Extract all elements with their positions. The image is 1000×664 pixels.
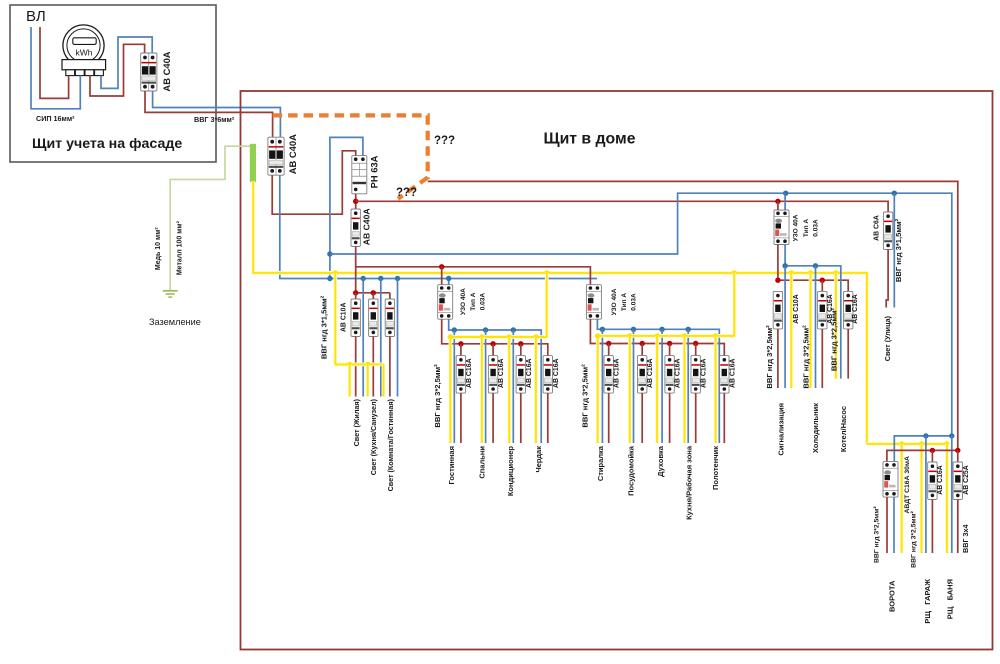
wire yellow circuit group1 509.2 bbox=[507, 337, 511, 443]
label ВВГ нгд 3*2,5мм² (2) bbox=[581, 364, 590, 428]
wire red output garage bbox=[931, 500, 933, 554]
label АВ С40А (facade) bbox=[161, 51, 172, 91]
label АВ С16А (fridge) bbox=[827, 294, 834, 324]
label Тип А (1) bbox=[470, 292, 477, 310]
node PE junction group2 first bbox=[595, 333, 600, 338]
label Гостинная bbox=[447, 446, 456, 484]
wire red meter to breaker QF0 bbox=[90, 44, 145, 96]
node PE junction group1 481.9 bbox=[479, 334, 484, 339]
node neutral tap light 3 bbox=[395, 276, 400, 281]
wire red feed breaker group1 493.1 bbox=[492, 344, 494, 356]
label Стиралка bbox=[596, 445, 605, 481]
wire red feed breaker group2 642.2 bbox=[641, 344, 643, 356]
svg-text:АВ С16А: АВ С16А bbox=[498, 358, 505, 388]
label РН 63А bbox=[369, 155, 380, 188]
wire red house breaker to РН relay bbox=[272, 151, 356, 214]
node neutral junction at riser (upper) bbox=[327, 251, 332, 256]
label Металл 100 мм² bbox=[177, 220, 184, 275]
wire red output group2 669.6 bbox=[669, 393, 671, 443]
wire blue output gates bbox=[893, 497, 895, 553]
wire yellow lights PE distribution bbox=[335, 273, 383, 365]
label АВ С25А bbox=[963, 465, 970, 495]
wire red output group2 608.7 bbox=[608, 393, 610, 443]
breaker АВ С25А banya bbox=[953, 462, 962, 500]
УЗО 40А group3 bbox=[774, 210, 789, 245]
svg-text:Кухня/Рабочая зона: Кухня/Рабочая зона bbox=[685, 445, 694, 520]
svg-text:АВ С16А: АВ С16А bbox=[937, 465, 944, 495]
label УЗО 40А (1) bbox=[460, 288, 467, 315]
node neutral junction garage bbox=[923, 433, 928, 438]
wire red output banya bbox=[957, 500, 959, 554]
node neutral junction banya bbox=[949, 433, 954, 438]
wire blue drop to УЗО1 bbox=[448, 279, 450, 285]
svg-text:???: ??? bbox=[396, 187, 417, 199]
wire red feed breaker group2 695.7 bbox=[695, 344, 697, 356]
label ВВГ нгд 3*2,5мм² (garage) bbox=[911, 510, 918, 567]
wire red output light 3 bbox=[389, 337, 391, 397]
breaker АВ С16А group2 608.7 bbox=[604, 356, 613, 394]
wire yellow PE main bus bbox=[253, 181, 867, 444]
wire red output group2 642.2 bbox=[641, 393, 643, 443]
wire yellow group1 sub-bus bbox=[450, 273, 546, 443]
wire red feed breaker group1 460.9 bbox=[460, 344, 462, 356]
voltage relay РН 63А bbox=[352, 156, 367, 194]
wire yellow circuit group2 657.1 bbox=[655, 336, 659, 443]
wire blue neutral riser to РН relay bbox=[330, 137, 363, 278]
label УЗО 40А (2) bbox=[611, 288, 618, 315]
node neutral tap УЗО3 bbox=[783, 191, 788, 196]
label АВ С16А group1 520.8 bbox=[526, 358, 533, 388]
svg-text:Тип А: Тип А bbox=[803, 219, 810, 237]
svg-text:ВВГ 3х4: ВВГ 3х4 bbox=[961, 524, 970, 552]
label ВВГ нгд 3*2,5мм² (boiler) bbox=[829, 307, 838, 371]
node phase junction group2 608.7 bbox=[606, 341, 611, 346]
wire yellow fridge circuit bbox=[809, 273, 813, 388]
label Заземление bbox=[149, 317, 201, 327]
svg-text:Щит в доме: Щит в доме bbox=[544, 131, 636, 148]
breaker АВ С16А boiler bbox=[844, 291, 853, 329]
svg-text:Спальни: Спальни bbox=[478, 446, 487, 479]
house panel box (Щит в доме) bbox=[241, 91, 993, 650]
label ВВГ нгд 3*2,5мм² (gates) bbox=[874, 506, 881, 563]
wire blue group1 sub-bus bbox=[449, 319, 542, 443]
wire yellow group2 sub-bus bbox=[598, 273, 735, 443]
svg-text:???: ??? bbox=[434, 135, 455, 147]
label АВ С6А bbox=[874, 215, 881, 241]
svg-text:ВВГ нгд 3*2,5мм²: ВВГ нгд 3*2,5мм² bbox=[802, 325, 811, 389]
label ВВГ 3х4 bbox=[961, 524, 970, 552]
node neutral tap light 2 bbox=[378, 276, 383, 281]
node phase junction group2 669.6 bbox=[667, 341, 672, 346]
svg-text:ВВГ нгд 3*2,5мм²: ВВГ нгд 3*2,5мм² bbox=[829, 307, 838, 371]
label АВ С16А group1 460.9 bbox=[466, 358, 473, 388]
label Спальни bbox=[478, 446, 487, 479]
breaker АВ С16А group1 520.8 bbox=[516, 356, 525, 394]
label Холодильник bbox=[811, 403, 820, 453]
node neutral junction group2 602.4 bbox=[600, 327, 605, 332]
label АВ С16А group2 695.7 bbox=[701, 358, 708, 388]
label Щит учета на фасаде bbox=[32, 136, 182, 152]
breaker АВ С16А garage bbox=[928, 462, 937, 500]
node phase junction banya bbox=[955, 448, 960, 453]
svg-text:Заземление: Заземление bbox=[149, 317, 201, 327]
wire red drop to УЗО3 bbox=[777, 201, 779, 210]
svg-text:АВ С40А: АВ С40А bbox=[287, 134, 298, 174]
УЗО 40А group1 bbox=[438, 285, 453, 320]
wire red feed fridge breaker bbox=[821, 280, 823, 291]
svg-text:АВДТ С16А 30мА: АВДТ С16А 30мА bbox=[904, 456, 911, 513]
wire yellow circuit group2 715.6 bbox=[714, 336, 718, 443]
wire red phase sub-bus to УЗО1/УЗО2 bbox=[356, 247, 591, 293]
label ВВГ 3*6мм² bbox=[194, 115, 235, 124]
svg-text:Кондиционер: Кондиционер bbox=[506, 446, 515, 497]
label Посудомойка bbox=[627, 445, 636, 496]
node neutral junction group2 662.1 bbox=[659, 327, 664, 332]
svg-text:Тип А: Тип А bbox=[470, 292, 477, 310]
label Свет (Кухня/Санузел) bbox=[369, 398, 378, 475]
wire red output fridge bbox=[821, 329, 823, 388]
wire yellow circuit group1 535.9 bbox=[534, 337, 538, 443]
wire blue bottom sub-bus bbox=[894, 436, 952, 462]
label АВ С10А (lights) bbox=[340, 303, 347, 333]
label ??? (lower) bbox=[396, 187, 417, 199]
wire yellow light circuit 2 bbox=[366, 364, 370, 396]
wire blue circuit group2 688.2 bbox=[687, 329, 689, 443]
ground wire (light green) from busbar to earth bbox=[170, 146, 250, 291]
svg-text:АВ С25А: АВ С25А bbox=[963, 465, 970, 495]
wire red output group2 695.7 bbox=[695, 393, 697, 443]
label Щит в доме bbox=[544, 131, 636, 148]
label УЗО 40А (3) bbox=[793, 214, 800, 241]
wire red facade breaker to house breaker bbox=[145, 91, 273, 137]
svg-text:АВ С6А: АВ С6А bbox=[874, 215, 881, 241]
wire yellow signal circuit bbox=[789, 273, 793, 388]
label Сигнализация bbox=[776, 403, 785, 456]
wire blue group2 sub-bus bbox=[597, 319, 719, 443]
breaker QF0 АВ С40А (facade, 2-pole) bbox=[141, 53, 157, 91]
wire blue street light bbox=[893, 193, 895, 307]
svg-text:ВВГ 3*6мм²: ВВГ 3*6мм² bbox=[194, 115, 235, 124]
breaker АВ С10А light 3 bbox=[385, 299, 394, 337]
breaker АВ С16А group1 493.1 bbox=[488, 356, 497, 394]
node PE tap fridge bbox=[808, 270, 813, 275]
label АВ С40А (house input) bbox=[287, 134, 298, 174]
breaker АВ С10А signal bbox=[773, 291, 782, 329]
svg-text:0.03А: 0.03А bbox=[631, 293, 638, 311]
node phase junction g3-1 bbox=[775, 278, 780, 283]
svg-text:УЗО 40А: УЗО 40А bbox=[611, 288, 618, 315]
node phase junction g3-2 bbox=[820, 278, 825, 283]
wire red phase bus to УЗО3 and АВ С6А bbox=[356, 201, 888, 212]
АВДТ С16А 30мА (RCBO gates) bbox=[883, 462, 898, 498]
wire red group3 sub-bus bbox=[778, 245, 848, 292]
wire red output light 2 bbox=[372, 337, 374, 397]
svg-text:Тип А: Тип А bbox=[621, 293, 628, 311]
node lights phase junction 2 bbox=[371, 290, 376, 295]
wire red ВЛ supply to meter bbox=[40, 27, 69, 98]
svg-text:ВВГ нгд 3*1,5мм²: ВВГ нгд 3*1,5мм² bbox=[320, 295, 329, 359]
wire blue light circuit 1 bbox=[362, 279, 364, 397]
svg-text:Металл 100 мм²: Металл 100 мм² bbox=[177, 220, 184, 275]
УЗО 40А group2 bbox=[586, 285, 601, 320]
svg-text:ВОРОТА: ВОРОТА bbox=[887, 580, 896, 612]
svg-text:Свет (Комната/Гостинная): Свет (Комната/Гостинная) bbox=[386, 398, 395, 491]
label АВ С16А group1 547.8 bbox=[553, 358, 560, 388]
label Кондиционер bbox=[506, 446, 515, 497]
breaker QF2 АВ С40А (1-pole) bbox=[351, 209, 360, 247]
label Тип А (2) bbox=[621, 293, 628, 311]
wire red lights sub-bus bbox=[356, 292, 390, 294]
wire red output group1 493.1 bbox=[492, 393, 494, 443]
svg-text:Гостинная: Гостинная bbox=[447, 446, 456, 484]
orange dashed bypass proposal bbox=[273, 115, 428, 198]
svg-text:АВ С16А: АВ С16А bbox=[466, 358, 473, 388]
node lights PE junction 2 bbox=[365, 362, 370, 367]
node neutral junction group2 688.2 bbox=[686, 327, 691, 332]
svg-text:РН 63А: РН 63А bbox=[369, 155, 380, 188]
svg-text:ВВГ нгд 3*2,5мм²: ВВГ нгд 3*2,5мм² bbox=[433, 364, 442, 428]
node PE junction group1 535.9 bbox=[533, 334, 538, 339]
svg-text:kWh: kWh bbox=[76, 48, 93, 58]
wire blue garage circuit bbox=[925, 436, 927, 553]
label Свет (Комната/Гостиная) bbox=[386, 398, 395, 491]
node phase junction group1 460.9 bbox=[458, 341, 463, 346]
svg-text:Полотенчик: Полотенчик bbox=[711, 446, 720, 490]
breaker АВ С16А group2 724.3 bbox=[720, 356, 729, 394]
node phase junction group1 520.8 bbox=[518, 341, 523, 346]
wire blue ВЛ supply to meter bbox=[31, 27, 80, 109]
wire red output boiler bbox=[847, 329, 849, 379]
breaker АВ С16А group2 695.7 bbox=[691, 356, 700, 394]
wire yellow light circuit 3 bbox=[382, 364, 386, 396]
node PE junction group2 715.6 bbox=[713, 333, 718, 338]
svg-text:АВ С16А: АВ С16А bbox=[729, 358, 736, 388]
wire red output signal bbox=[777, 329, 779, 388]
svg-text:Духовка: Духовка bbox=[656, 445, 665, 477]
label Духовка bbox=[656, 445, 665, 477]
label АВ С16А (garage) bbox=[937, 465, 944, 495]
label АВ С16А group2 724.3 bbox=[729, 358, 736, 388]
svg-text:Посудомойка: Посудомойка bbox=[627, 445, 636, 496]
label Чердак bbox=[534, 446, 543, 473]
node PE tap group2 bbox=[732, 270, 737, 275]
wire red bypass line to right side bbox=[428, 181, 958, 450]
label АВ С16А group2 608.7 bbox=[614, 358, 621, 388]
svg-text:АВ С16А: АВ С16А bbox=[526, 358, 533, 388]
node PE junction group2 629.8 bbox=[627, 333, 632, 338]
wire red feed light breaker 2 bbox=[372, 293, 374, 299]
node PE junction group1 first bbox=[448, 334, 453, 339]
breaker АВ С16А group2 669.6 bbox=[665, 356, 674, 394]
label АВ С16А group1 493.1 bbox=[498, 358, 505, 388]
wire red РН output to junction bbox=[355, 194, 357, 209]
node lights PE junction 1 bbox=[347, 362, 352, 367]
svg-text:АВ С16А: АВ С16А bbox=[675, 358, 682, 388]
wire blue circuit group2 662.1 bbox=[661, 329, 663, 443]
node neutral tap УЗО1 bbox=[446, 276, 451, 281]
node phase junction garage bbox=[930, 448, 935, 453]
node PE tap boiler bbox=[833, 270, 838, 275]
wire blue circuit group2 633.5 bbox=[633, 329, 635, 443]
label АВ С16А (boiler) bbox=[852, 294, 859, 324]
label РЩ ГАРАЖ bbox=[923, 579, 932, 624]
svg-text:РЩ БАНЯ: РЩ БАНЯ bbox=[946, 579, 955, 619]
label АВ С16А group2 669.6 bbox=[675, 358, 682, 388]
node neutral junction group2 633.5 bbox=[631, 327, 636, 332]
node PE tap lights bbox=[333, 270, 338, 275]
node neutral junction at riser (lower) bbox=[327, 276, 332, 281]
label Свет (Жилая) bbox=[352, 398, 361, 446]
node neutral tap light 1 bbox=[361, 276, 366, 281]
svg-text:ВВГ нгд 3*2,5мм²: ВВГ нгд 3*2,5мм² bbox=[911, 510, 918, 567]
node PE junction banya bbox=[944, 441, 949, 446]
node phase junction below РН bbox=[353, 199, 358, 204]
wire blue light circuit 3 bbox=[397, 279, 399, 397]
label ВВГ нгд 3*1,5мм² bbox=[320, 295, 329, 359]
wire yellow boiler circuit bbox=[834, 273, 838, 379]
wire blue circuit group2 602.4 bbox=[601, 329, 603, 443]
node phase junction group2 695.7 bbox=[693, 341, 698, 346]
label Свет (Улица) bbox=[883, 315, 892, 361]
label ВВГ нгд 3*2,5мм² (signal) bbox=[765, 325, 774, 389]
wire yellow circuit group2 684.5 bbox=[683, 336, 687, 443]
label АВ С16А group2 642.2 bbox=[647, 358, 654, 388]
node neutral junction group1 513.3 bbox=[511, 327, 516, 332]
svg-text:Чердак: Чердак bbox=[534, 446, 543, 473]
svg-text:АВ С16А: АВ С16А bbox=[553, 358, 560, 388]
label АВ С40А (1-pole) bbox=[361, 208, 371, 245]
wire blue banya circuit bbox=[951, 436, 953, 553]
svg-text:ВЛ: ВЛ bbox=[26, 8, 46, 25]
svg-text:СИП 16мм²: СИП 16мм² bbox=[36, 114, 75, 123]
node phase tap УЗО1 bbox=[439, 264, 444, 269]
wire red group1 sub-bus bbox=[442, 319, 548, 355]
label АВДТ С16А 30мА bbox=[904, 456, 911, 513]
node neutral junction g3-1 bbox=[782, 263, 787, 268]
svg-text:АВ С16А: АВ С16А bbox=[701, 358, 708, 388]
wire red feed light breaker 1 bbox=[355, 293, 357, 299]
wire red bottom sub-bus bbox=[887, 450, 958, 461]
breaker АВ С6А street light bbox=[883, 212, 892, 250]
node phase junction group2 642.2 bbox=[640, 341, 645, 346]
svg-text:ВВГ нгд 3*2,5мм²: ВВГ нгд 3*2,5мм² bbox=[874, 506, 881, 563]
breaker АВ С16А fridge bbox=[818, 291, 827, 329]
wire blue circuit group1 454.3 bbox=[453, 330, 455, 443]
node PE junction group1 509.2 bbox=[507, 334, 512, 339]
svg-text:АВ С16А: АВ С16А bbox=[614, 358, 621, 388]
label Котел/Насос bbox=[839, 406, 848, 452]
wire red feed garage breaker bbox=[931, 450, 933, 462]
wire blue signal circuit bbox=[784, 266, 786, 388]
node neutral junction group1 454.3 bbox=[452, 327, 457, 332]
label ВВГ нгд 3*2,5мм² (1) bbox=[433, 364, 442, 428]
wire red output light 1 bbox=[355, 337, 357, 397]
label АВ С10А (signal) bbox=[793, 294, 800, 324]
node phase tap for УЗО3 bbox=[775, 199, 780, 204]
wire yellow gates circuit bbox=[900, 444, 904, 553]
label РЩ БАНЯ bbox=[946, 579, 955, 619]
breaker АВ С10А light 1 bbox=[351, 299, 360, 337]
node PE tap group1 bbox=[544, 270, 549, 275]
wire blue circuit group1 513.3 bbox=[512, 330, 514, 443]
PE busbar (green) bbox=[250, 144, 256, 182]
breaker АВ С16А group1 547.8 bbox=[543, 356, 552, 394]
wire red output street light bbox=[886, 250, 888, 308]
wire red output group1 520.8 bbox=[520, 393, 522, 443]
svg-text:ВВГ нгд 3*2,5мм²: ВВГ нгд 3*2,5мм² bbox=[581, 364, 590, 428]
wire red feed light breaker 3 bbox=[389, 293, 391, 299]
wire blue meter to breaker QF0 bbox=[101, 37, 152, 88]
svg-text:Свет (Улица): Свет (Улица) bbox=[883, 315, 892, 361]
node PE junction group2 684.5 bbox=[682, 333, 687, 338]
wire blue light circuit 2 bbox=[380, 279, 382, 397]
wire red output gates bbox=[886, 497, 888, 553]
wire blue neutral bus (lower) bbox=[280, 175, 597, 278]
label Кухня/Рабочая зона bbox=[685, 445, 694, 520]
wire blue neutral bus (upper right) bbox=[330, 193, 952, 436]
svg-text:0.03А: 0.03А bbox=[813, 219, 820, 237]
svg-text:АВ С16А: АВ С16А bbox=[647, 358, 654, 388]
wire red group2 sub-bus bbox=[590, 319, 724, 355]
breaker АВ С16А group2 642.2 bbox=[638, 356, 647, 394]
wire blue fridge circuit bbox=[815, 266, 817, 388]
wire red feed banya breaker bbox=[957, 450, 959, 462]
wire yellow banya circuit bbox=[945, 444, 949, 553]
svg-text:АВ С10А: АВ С10А bbox=[793, 294, 800, 324]
svg-text:АВ С10А: АВ С10А bbox=[340, 303, 347, 333]
node neutral junction group1 485.6 bbox=[483, 327, 488, 332]
node PE junction group2 657.1 bbox=[654, 333, 659, 338]
svg-text:Свет (Кухня/Санузел): Свет (Кухня/Санузел) bbox=[369, 398, 378, 475]
label ВВГ нгд 3*1,5мм² (street) bbox=[894, 218, 903, 282]
earth ground symbol bbox=[163, 291, 178, 297]
label ВОРОТА bbox=[887, 580, 896, 612]
svg-text:ВВГ нгд 3*2,5мм²: ВВГ нгд 3*2,5мм² bbox=[765, 325, 774, 389]
svg-text:ВВГ нгд 3*1,5мм²: ВВГ нгд 3*1,5мм² bbox=[894, 218, 903, 282]
wire blue group3 sub-bus bbox=[785, 245, 841, 379]
svg-text:УЗО 40А: УЗО 40А bbox=[460, 288, 467, 315]
label 0.03А (1) bbox=[479, 293, 486, 311]
wire yellow light circuit 1 bbox=[348, 364, 352, 396]
facade panel box (Щит учета на фасаде) bbox=[10, 5, 216, 162]
node neutral tap Свет(Улица) bbox=[892, 191, 897, 196]
wire red drop to УЗО1 bbox=[441, 267, 443, 285]
svg-text:Щит учета на фасаде: Щит учета на фасаде bbox=[32, 136, 182, 152]
label СИП 16мм² bbox=[36, 114, 75, 123]
wire red feed breaker group2 669.6 bbox=[669, 344, 671, 356]
wire blue circuit group1 485.6 bbox=[485, 330, 487, 443]
label ВВГ нгд 3*2,5мм² (fridge) bbox=[802, 325, 811, 389]
wire blue drop to УЗО3 bbox=[784, 193, 786, 210]
node PE junction gates bbox=[899, 441, 904, 446]
label ??? (upper) bbox=[434, 135, 455, 147]
svg-text:Стиралка: Стиралка bbox=[596, 445, 605, 481]
node PE tap signal bbox=[789, 270, 794, 275]
svg-text:УЗО 40А: УЗО 40А bbox=[793, 214, 800, 241]
svg-text:Холодильник: Холодильник bbox=[811, 403, 820, 453]
wire yellow bottom sub-bus bbox=[867, 442, 947, 446]
node neutral junction g3-2 bbox=[813, 263, 818, 268]
svg-text:АВ С40А: АВ С40А bbox=[161, 51, 172, 91]
label Полотенчик bbox=[711, 446, 720, 490]
svg-text:АВ С40А: АВ С40А bbox=[361, 208, 371, 245]
svg-text:Медь 10 мм²: Медь 10 мм² bbox=[155, 227, 162, 271]
node PE junction garage bbox=[919, 441, 924, 446]
breaker QF1 АВ С40А (house input, 2-pole) bbox=[268, 137, 284, 175]
wire red output group1 547.8 bbox=[547, 393, 549, 443]
breaker АВ С16А group1 460.9 bbox=[456, 356, 465, 394]
label Тип А (3) bbox=[803, 219, 810, 237]
